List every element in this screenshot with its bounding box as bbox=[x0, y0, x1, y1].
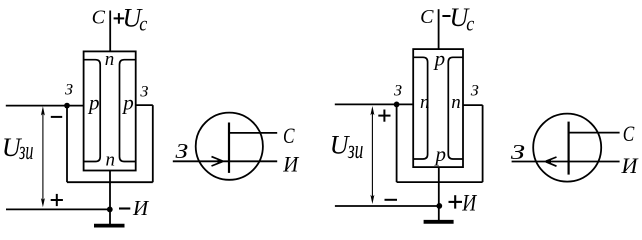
svg-text:З: З bbox=[65, 82, 73, 99]
source lead (left symbol) bbox=[229, 160, 277, 162]
p-region left (left structure) bbox=[84, 60, 101, 162]
wire: right gate terminal bbox=[335, 103, 413, 105]
minus sign (right, bottom) bbox=[385, 199, 398, 201]
svg-text:З: З bbox=[140, 84, 148, 101]
svg-text:p: p bbox=[433, 46, 446, 70]
svg-text:З: З bbox=[176, 139, 189, 163]
label Uзи (right) bbox=[330, 130, 364, 164]
p-region right (left structure) bbox=[120, 60, 136, 162]
plus sign (left, bottom) bbox=[51, 194, 63, 206]
label +Uc (left supply) bbox=[114, 3, 148, 35]
svg-text:p: p bbox=[121, 90, 134, 114]
svg-text:n: n bbox=[451, 92, 461, 113]
wire: left source lead bbox=[109, 171, 111, 225]
channel line (right symbol) bbox=[567, 122, 569, 175]
svg-text:c: c bbox=[139, 11, 148, 35]
wire: gate interconnect bottom (right) bbox=[397, 181, 483, 183]
junction dot: left gate node bbox=[64, 103, 70, 109]
junction dot: right gate node bbox=[394, 102, 400, 108]
wire: left gate terminal bbox=[6, 105, 84, 107]
n-region right (right structure) bbox=[448, 57, 463, 159]
voltage arrow Uзи (right) bbox=[370, 106, 374, 204]
n-type bar (left structure body) bbox=[84, 51, 136, 170]
label -Uc (right supply) bbox=[442, 3, 474, 35]
source lead (right symbol) bbox=[569, 161, 620, 163]
p-type bar (right structure body) bbox=[413, 49, 463, 167]
svg-text:З: З bbox=[394, 83, 402, 100]
ground (right) bbox=[424, 220, 454, 224]
drain lead (right symbol) bbox=[569, 132, 620, 134]
svg-text:И: И bbox=[620, 153, 638, 178]
label -И (left source) bbox=[119, 196, 150, 220]
svg-text:p: p bbox=[434, 142, 447, 166]
minus sign (left, top) bbox=[51, 116, 62, 118]
svg-text:c: c bbox=[466, 11, 475, 35]
junction dot: right source node bbox=[436, 203, 442, 209]
n-region left (right structure) bbox=[413, 57, 427, 159]
wire: right gate vertical bbox=[152, 105, 154, 182]
gate lead (right symbol) bbox=[512, 161, 569, 163]
wire: right source lead bbox=[438, 167, 440, 220]
svg-text:зи: зи bbox=[18, 136, 33, 165]
svg-text:З: З bbox=[471, 83, 479, 100]
svg-text:З: З bbox=[511, 140, 525, 164]
plus sign (right, top) bbox=[378, 110, 390, 122]
svg-text:n: n bbox=[420, 92, 430, 113]
svg-text:И: И bbox=[132, 196, 150, 220]
wire: left drain lead bbox=[109, 11, 111, 52]
wire: left source terminal bbox=[6, 208, 110, 210]
JFET symbol n-channel: circle U1 bbox=[196, 113, 263, 180]
junction dot: left source node bbox=[107, 207, 113, 213]
wire: right gate vertical (right structure) bbox=[482, 105, 484, 182]
wire: gate drop from node bbox=[66, 106, 68, 183]
svg-text:И: И bbox=[461, 190, 477, 215]
wire: right drain lead bbox=[438, 9, 440, 49]
voltage arrow Uзи (left) bbox=[41, 106, 45, 207]
svg-text:C: C bbox=[283, 123, 295, 148]
svg-text:зи: зи bbox=[347, 135, 363, 164]
label +И (right source) bbox=[449, 190, 478, 215]
drain lead (left symbol) bbox=[229, 132, 277, 134]
JFET symbol p-channel: circle U2 bbox=[533, 114, 601, 182]
gate arrow (points left, p-channel) bbox=[544, 157, 557, 166]
wire: right source terminal bbox=[335, 205, 439, 207]
svg-text:C: C bbox=[623, 121, 635, 146]
svg-text:n: n bbox=[105, 149, 115, 170]
channel line (left symbol) bbox=[228, 123, 230, 173]
wire: right gate stub (right structure) bbox=[463, 104, 483, 106]
wire: right gate stub bbox=[136, 104, 153, 106]
ground (left) bbox=[94, 224, 125, 228]
svg-text:C: C bbox=[92, 7, 106, 29]
svg-text:C: C bbox=[420, 6, 434, 28]
svg-text:n: n bbox=[105, 49, 115, 70]
wire: gate interconnect bottom bbox=[67, 181, 153, 183]
svg-text:И: И bbox=[282, 152, 299, 177]
svg-text:p: p bbox=[87, 90, 100, 114]
wire: gate drop from node (right) bbox=[396, 104, 398, 182]
gate arrow (points right, n-channel) bbox=[212, 157, 225, 166]
label Uзи (left) bbox=[2, 133, 34, 165]
gate lead (left symbol) bbox=[173, 160, 229, 162]
